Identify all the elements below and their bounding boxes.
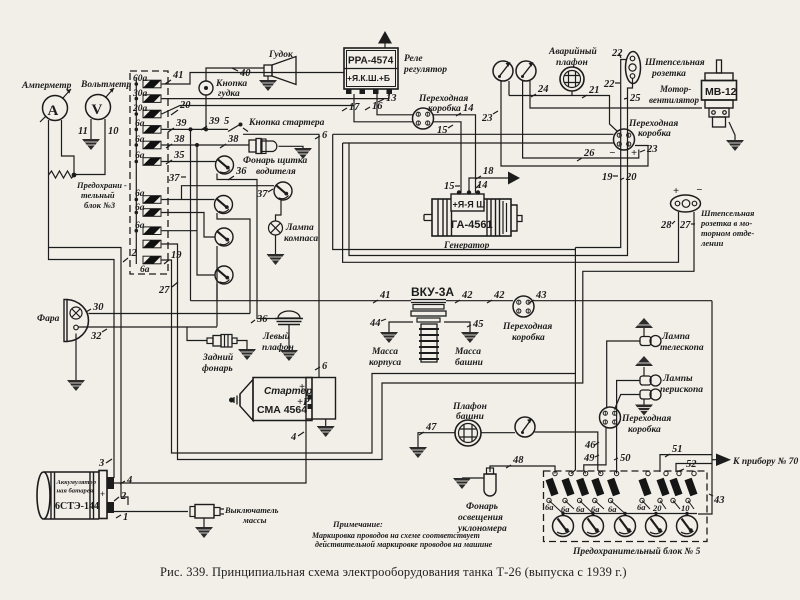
svg-text:МВ-12: МВ-12: [705, 86, 737, 98]
svg-text:Задний: Задний: [202, 352, 233, 363]
svg-text:37: 37: [256, 189, 268, 200]
ground motor: [726, 140, 744, 151]
svg-text:СМА 4564: СМА 4564: [257, 404, 307, 416]
label Плафон башни: [452, 401, 487, 422]
wire 47 ground to dome lamp: [418, 433, 455, 447]
svg-text:ная батарея: ная батарея: [57, 488, 94, 495]
starter button (кнопка стартера): [228, 123, 248, 132]
label Переходная коробка 3: [628, 118, 678, 139]
wire gauge2 right to motor MB-12: [530, 81, 702, 108]
svg-text:11: 11: [78, 126, 88, 137]
fuse F6: [639, 471, 652, 502]
svg-text:43: 43: [535, 290, 547, 301]
svg-text:36: 36: [256, 314, 268, 325]
svg-text:V: V: [92, 102, 103, 118]
svg-text:Аккумулятор: Аккумулятор: [56, 479, 97, 486]
wire 13 fuse2 to relay pin: [162, 94, 389, 99]
fuse 6а row11: [143, 256, 161, 264]
label Задний фонарь: [202, 352, 233, 374]
svg-text:24: 24: [537, 84, 549, 95]
fuse 6а row6: [143, 158, 161, 166]
svg-text:20: 20: [179, 100, 191, 111]
wire 14 junction to generator: [433, 115, 476, 193]
svg-text:20а: 20а: [132, 104, 148, 114]
svg-text:Предохранительный блок № 5: Предохранительный блок № 5: [572, 546, 701, 557]
wire horn button up to horn: [206, 68, 264, 81]
svg-text:телескопа: телескопа: [660, 343, 704, 353]
relay regulator РРА-4574: [344, 31, 398, 94]
svg-text:6а: 6а: [135, 135, 145, 145]
switch S5: [215, 266, 233, 284]
wire ammeter left to battery (3): [49, 120, 115, 478]
svg-text:водителя: водителя: [256, 166, 296, 177]
svg-text:освещения: освещения: [458, 513, 503, 523]
svg-text:2: 2: [120, 491, 127, 502]
wire vertical 190.5 to bus: [190, 129, 192, 300]
svg-text:Переходная: Переходная: [628, 118, 678, 129]
ground voltmeter: [82, 139, 100, 150]
wire 25 socket down (20): [349, 78, 633, 256]
svg-text:коробка: коробка: [428, 103, 461, 114]
svg-text:6: 6: [322, 130, 328, 141]
label Фонарь освещения уклономера: [457, 502, 507, 534]
svg-text:39: 39: [208, 116, 220, 127]
svg-text:Переходная: Переходная: [418, 93, 468, 104]
fuse 6а row9: [143, 227, 161, 235]
svg-text:50: 50: [620, 453, 631, 464]
wire voltmeter left lead 11: [90, 119, 92, 139]
wire 49 junction box to fuse: [584, 427, 606, 474]
label Штепсельная розетка в моторном отделении: [700, 208, 755, 248]
fuse block 5 link wire: [563, 513, 697, 515]
svg-text:27: 27: [158, 285, 170, 296]
svg-text:26: 26: [583, 148, 595, 159]
wire 44 mass корпуса: [389, 322, 413, 332]
battery 6СТЭ-144: [37, 471, 114, 520]
svg-text:10: 10: [681, 503, 690, 513]
fuse 6а row5: [143, 141, 161, 149]
voltmeter V: [86, 88, 115, 120]
svg-text:6: 6: [322, 361, 328, 372]
svg-text:16: 16: [372, 101, 383, 112]
rotary contact device ВКУ-3А: [411, 300, 446, 363]
label Аварийный плафон: [548, 46, 597, 68]
svg-text:+: +: [673, 186, 679, 197]
svg-text:Масса: Масса: [371, 347, 398, 357]
svg-text:Фонарь: Фонарь: [466, 502, 499, 512]
note Примечание: [311, 519, 493, 549]
svg-text:Предохрани -: Предохрани -: [76, 180, 127, 190]
svg-text:Стартер: Стартер: [264, 386, 312, 397]
svg-text:Мотор-: Мотор-: [659, 84, 691, 94]
wire fuse10 to periscope lamp (long): [162, 212, 694, 460]
svg-text:52: 52: [686, 459, 697, 470]
label Переходная коробка 4: [502, 321, 552, 343]
svg-text:К прибору № 70: К прибору № 70: [732, 456, 799, 467]
svg-text:17: 17: [349, 102, 360, 113]
svg-text:Аварийный: Аварийный: [548, 46, 597, 57]
svg-text:60а: 60а: [133, 74, 148, 84]
svg-text:лении: лении: [700, 238, 724, 248]
label Лампа телескопа: [660, 332, 704, 353]
motor fan МВ-12: [702, 60, 737, 140]
svg-text:4: 4: [290, 432, 296, 443]
wire loop B to engine socket (28): [343, 143, 679, 262]
label Фонарь щитка водителя: [243, 156, 307, 177]
wire switch5 down to bus: [216, 284, 218, 301]
wire 15 junction to generator: [433, 122, 461, 193]
svg-text:6а: 6а: [140, 265, 150, 275]
fuse F4: [591, 471, 604, 502]
svg-text:массы: массы: [242, 515, 267, 525]
emergency dome lamp (аварийный плафон): [560, 67, 584, 96]
svg-text:Плафон: Плафон: [452, 401, 487, 412]
svg-text:РРА-4574: РРА-4574: [348, 56, 394, 67]
svg-text:15: 15: [444, 181, 455, 192]
wire 2 battery minus branch: [49, 248, 129, 506]
label Лампы перископа: [660, 374, 703, 395]
periscope lamp 1: [640, 375, 661, 386]
fuse F3: [576, 471, 589, 502]
ground масса корпуса: [380, 332, 398, 343]
wire telescope lamp to junction box: [607, 341, 640, 409]
svg-text:27: 27: [679, 220, 691, 231]
wire voltmeter right lead 10: [74, 119, 105, 175]
wire 18 to arrow: [469, 178, 508, 191]
wire 16 relay pin3 to junction box: [377, 94, 413, 115]
fuse row10: [143, 240, 161, 248]
periscope lamp 2: [640, 389, 661, 400]
svg-text:49: 49: [583, 453, 595, 464]
svg-text:+: +: [299, 382, 305, 393]
svg-text:Рис. 339. Принципиальная схема: Рис. 339. Принципиальная схема электрооб…: [160, 565, 627, 579]
svg-text:51: 51: [672, 444, 683, 455]
wire fuse8 to switch4: [162, 213, 215, 238]
label Реле регулятор: [403, 54, 447, 75]
svg-text:+: +: [631, 148, 637, 159]
svg-text:Гудок: Гудок: [268, 49, 294, 60]
svg-text:41: 41: [379, 290, 391, 301]
switch S4: [215, 228, 233, 246]
svg-text:14: 14: [463, 103, 474, 114]
wire 43 right vertical: [698, 301, 712, 514]
gauge instrument 2: [516, 61, 536, 81]
svg-text:Масса: Масса: [454, 347, 481, 357]
fuse 20а: [143, 110, 161, 118]
generator ГА-4561: [424, 190, 522, 236]
svg-text:Штепсельная: Штепсельная: [700, 208, 755, 218]
engine compartment socket: [671, 185, 703, 212]
svg-text:Выключатель: Выключатель: [224, 505, 279, 515]
svg-text:23: 23: [646, 144, 658, 155]
svg-text:22: 22: [611, 48, 623, 59]
svg-text:20: 20: [625, 172, 637, 183]
svg-text:6а: 6а: [135, 203, 145, 213]
svg-text:+Я-Я Ш: +Я-Я Ш: [453, 200, 486, 210]
headlight Фара: [64, 300, 89, 381]
svg-text:Фонарь щитка: Фонарь щитка: [243, 156, 307, 166]
svg-text:плафон: плафон: [556, 57, 588, 68]
fuse block 1 dashed border: [130, 71, 168, 274]
svg-text:действительной маркировке пров: действительной маркировке проводов на ма…: [315, 540, 493, 549]
svg-text:гудка: гудка: [218, 88, 240, 99]
label Штепсельная розетка: [644, 58, 705, 79]
svg-text:Примечание:: Примечание:: [332, 519, 383, 529]
gauge instrument 1: [493, 61, 513, 81]
svg-text:20: 20: [652, 503, 662, 513]
ground rear light: [238, 349, 256, 360]
driver panel lamp (фонарь щитка водителя): [249, 139, 303, 154]
svg-text:44: 44: [369, 318, 381, 329]
wire 37 to switch2: [182, 186, 275, 200]
svg-text:−: −: [609, 148, 615, 159]
svg-text:19: 19: [602, 172, 613, 183]
wire 22 socket down (19): [575, 60, 626, 248]
junction box 2 (переходная коробка): [413, 108, 434, 129]
svg-text:компаса: компаса: [284, 234, 318, 244]
label Левый плафон: [262, 331, 294, 353]
svg-text:Кнопка стартера: Кнопка стартера: [248, 118, 325, 128]
arrow К прибору № 70: [716, 454, 731, 467]
ground 47: [409, 447, 427, 458]
wire 6 starter button to starter: [243, 134, 319, 377]
wire 38 fuse5 to driver panel lamp: [162, 144, 249, 146]
svg-text:коробка: коробка: [512, 332, 545, 343]
ground below periscope lamp: [643, 399, 645, 405]
wire fuse7 to switch3: [162, 199, 215, 201]
svg-text:32: 32: [90, 331, 102, 342]
wire 1 battery to ground switch: [114, 511, 188, 513]
svg-text:35: 35: [173, 150, 185, 161]
label Мотор-вентилятор: [649, 84, 700, 105]
svg-text:Переходная: Переходная: [502, 321, 552, 332]
wire 30 headlight to switch: [89, 313, 251, 315]
svg-text:48: 48: [512, 455, 524, 466]
wire 17 relay pin1 to junction box: [354, 94, 413, 122]
svg-text:38: 38: [227, 134, 239, 145]
label Масса башни: [454, 347, 483, 368]
svg-text:плафон: плафон: [262, 342, 294, 353]
horn Гудок: [264, 57, 296, 85]
telescope lamp (лампа телескопа): [640, 336, 661, 347]
arrow 18: [508, 172, 520, 185]
ground compass lamp: [267, 254, 285, 265]
svg-text:Штепсельная: Штепсельная: [644, 58, 705, 68]
ammeter A: [40, 89, 71, 122]
svg-text:торном отде-: торном отде-: [701, 228, 754, 238]
svg-text:37: 37: [168, 173, 180, 184]
wire ammeter right lead: [62, 120, 75, 175]
label Выключатель массы: [224, 505, 279, 525]
ground driver panel lamp: [294, 148, 312, 159]
svg-text:Реле: Реле: [404, 54, 423, 64]
svg-text:розетка: розетка: [651, 69, 686, 79]
wire 19 down to fuse F2: [571, 374, 575, 474]
svg-text:Маркировка проводов на схеме с: Маркировка проводов на схеме соответству…: [311, 531, 480, 540]
svg-text:A: A: [48, 103, 59, 119]
wire horn button down to 39: [205, 95, 207, 129]
wire periscope lamp 1 / 50 to fuse block: [617, 381, 640, 474]
wire 52: [676, 464, 712, 473]
wire loop A top: [333, 134, 576, 249]
ground starter: [317, 426, 335, 437]
wire 45 масса башни: [444, 322, 470, 332]
svg-text:38: 38: [173, 134, 185, 145]
wire 36 switch1 to left dome lamp: [217, 174, 277, 319]
svg-text:тельный: тельный: [81, 190, 115, 200]
junction box 4: [513, 296, 534, 317]
fuse block 5 dashed border: [544, 471, 708, 542]
svg-text:47: 47: [425, 422, 437, 433]
svg-text:13: 13: [386, 93, 397, 104]
svg-text:25: 25: [629, 93, 641, 104]
svg-text:+Я.К.Ш.+Б: +Я.К.Ш.+Б: [347, 73, 390, 83]
switch S2: [274, 182, 292, 200]
fuse labels 6а row: [545, 502, 690, 514]
svg-text:Переходная: Переходная: [621, 413, 671, 424]
wire 32 headlight: [79, 326, 218, 328]
svg-text:39: 39: [175, 118, 187, 129]
svg-text:6а: 6а: [135, 189, 145, 199]
ground масса башни: [461, 332, 479, 343]
svg-text:19: 19: [171, 250, 182, 261]
wire 35 fuse6 to switch1: [162, 161, 216, 163]
ground horn: [259, 80, 277, 91]
label Лампа компаса: [284, 223, 318, 244]
svg-text:41: 41: [172, 70, 184, 81]
svg-text:42: 42: [493, 290, 505, 301]
fuse F9: [685, 471, 698, 502]
wire 39 fuse4 to starter button: [162, 128, 228, 130]
fuse F5: [607, 471, 620, 502]
label Масса корпуса: [369, 347, 401, 368]
horn button (кнопка гудка): [199, 81, 213, 95]
svg-text:Лампа: Лампа: [661, 332, 690, 342]
label Переходная коробка: [418, 93, 468, 114]
ground switch (выключатель массы): [190, 505, 224, 528]
svg-text:30: 30: [92, 302, 104, 313]
svg-text:28: 28: [660, 220, 672, 231]
junction box 3: [614, 129, 635, 150]
wire vertical 197 to switch5: [197, 145, 215, 275]
label Предохранительный блок №3: [76, 180, 127, 210]
svg-text:23: 23: [481, 113, 493, 124]
svg-text:корпуса: корпуса: [369, 358, 401, 368]
wire compass lamp to ground: [275, 235, 277, 254]
turret dome lamp плафон башни: [455, 420, 481, 446]
svg-text:перископа: перископа: [660, 385, 703, 395]
switch S3: [215, 196, 233, 214]
svg-text:блок №3: блок №3: [84, 200, 116, 210]
svg-text:Лампы: Лампы: [662, 374, 693, 384]
fuse 30а: [143, 95, 161, 103]
rear light (задний фонарь): [187, 327, 247, 350]
svg-text:30а: 30а: [132, 89, 148, 99]
inclinometer lamp (фонарь освещения уклономера): [462, 468, 496, 496]
svg-text:18: 18: [483, 166, 494, 177]
svg-text:6а: 6а: [135, 221, 145, 231]
svg-text:46: 46: [584, 440, 596, 451]
wire periscope lamp 2 to junction box: [615, 395, 641, 410]
main bus wire 41: [191, 300, 713, 302]
svg-text:Левый: Левый: [262, 331, 290, 342]
svg-text:40: 40: [239, 68, 251, 79]
wire 26 gauge2 to junction box3: [523, 81, 639, 158]
svg-text:Кнопка: Кнопка: [215, 79, 247, 89]
gauge instrument 3: [515, 417, 535, 437]
svg-text:1: 1: [123, 512, 128, 523]
svg-text:+: +: [100, 489, 105, 499]
fuse block 1 bus wire: [135, 78, 137, 264]
svg-text:43: 43: [713, 495, 725, 506]
svg-text:−: −: [696, 185, 702, 196]
fuse F7: [657, 471, 670, 502]
svg-text:45: 45: [472, 319, 484, 330]
starter СМА 4564: [229, 378, 336, 427]
wire switch4 down to wire32: [216, 246, 218, 327]
svg-text:коробка: коробка: [638, 128, 671, 139]
svg-text:Лампа: Лампа: [285, 223, 314, 233]
svg-text:36: 36: [235, 166, 247, 177]
svg-text:Вольтметр: Вольтметр: [80, 80, 131, 90]
svg-text:10: 10: [108, 126, 119, 137]
svg-text:Амперметр: Амперметр: [21, 81, 72, 91]
ground left dome lamp: [280, 350, 298, 361]
fuse F8: [670, 471, 683, 502]
ground уклономер: [453, 478, 471, 489]
svg-text:6а: 6а: [576, 504, 585, 514]
lamp switch circles in block 5: [553, 516, 574, 537]
wire dome lamp to gauge: [481, 432, 515, 434]
switch S1: [216, 156, 234, 174]
svg-text:4: 4: [126, 475, 132, 486]
svg-text:башни: башни: [455, 357, 483, 368]
svg-text:розетка в мо-: розетка в мо-: [700, 218, 752, 228]
junction box 5 (переходная коробка у перископов): [600, 407, 621, 428]
svg-text:6а: 6а: [135, 119, 145, 129]
svg-text:3: 3: [98, 458, 104, 469]
wire switch2 to compass lamp: [276, 200, 282, 221]
svg-text:фонарь: фонарь: [202, 363, 233, 374]
wire 48 to уклономер lamp: [490, 466, 555, 474]
svg-text:42: 42: [461, 290, 473, 301]
fuse 6а row4: [143, 126, 161, 134]
svg-text:2: 2: [131, 248, 138, 259]
wire 20 fuse3: [162, 106, 354, 115]
label Переходная коробка 5: [621, 413, 671, 435]
wire gauge3 to fuse block 5: [535, 432, 601, 474]
svg-text:ГА-4561: ГА-4561: [451, 219, 493, 231]
svg-text:6а: 6а: [135, 151, 145, 161]
fuse F1: [546, 471, 559, 502]
wire 41 fuse1 to relay: [162, 73, 344, 85]
wire fuse11 to telescope circuit (19/27): [162, 248, 576, 454]
wire switch3 down to wire30: [217, 213, 250, 314]
wire fuse9 stub: [162, 230, 197, 232]
svg-text:коробка: коробка: [628, 424, 661, 435]
resistor (fuse block 3 shunt): [49, 171, 76, 178]
ground symbol under switch: [195, 527, 213, 538]
svg-text:башни: башни: [456, 411, 484, 422]
node junction dot: [72, 173, 77, 178]
wire 24/21 gauges to junction box3: [508, 81, 510, 96]
svg-text:ВКУ-3А: ВКУ-3А: [411, 285, 454, 299]
ground above telescope lamp: [643, 328, 645, 337]
svg-text:5: 5: [224, 116, 229, 127]
wire 51: [660, 455, 712, 472]
svg-text:21: 21: [588, 85, 600, 96]
fuse 6а row7: [143, 196, 161, 204]
